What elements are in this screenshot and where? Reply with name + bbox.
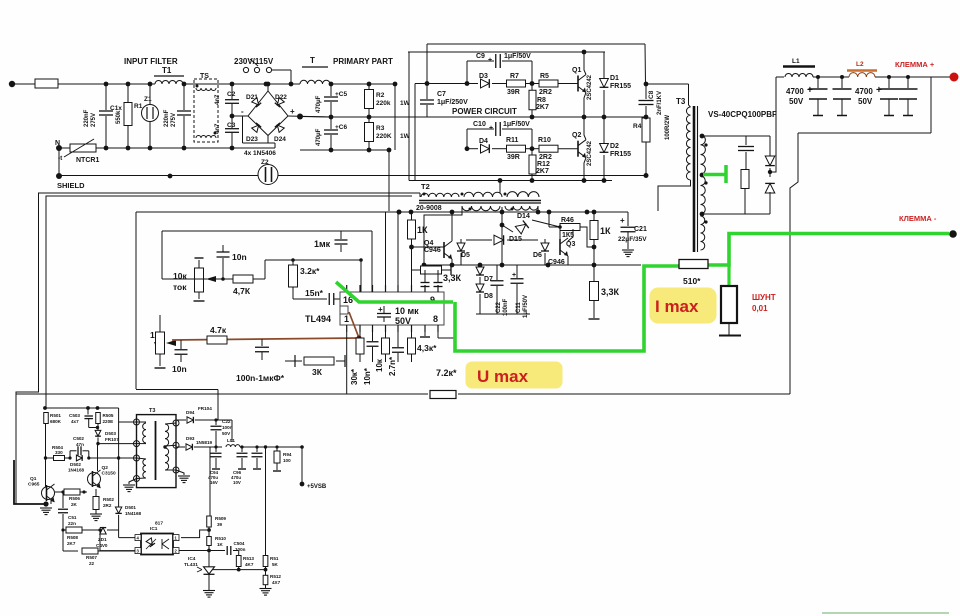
svg-text:100nF: 100nF xyxy=(503,298,509,316)
T3s terminals xyxy=(134,419,140,425)
svg-text:275V: 275V xyxy=(91,113,97,127)
resistor R506 2K xyxy=(55,491,63,493)
wire border bottom xyxy=(16,393,428,395)
wire T3 sec bottom to rectifier xyxy=(702,213,770,215)
svg-text:FR107: FR107 xyxy=(105,437,119,442)
svg-text:2SC4242: 2SC4242 xyxy=(587,74,593,100)
fuse F1 xyxy=(35,79,58,88)
capacitor C51 22n xyxy=(62,492,64,508)
wire Q2 emitter xyxy=(584,158,586,181)
wire rail y231 xyxy=(162,230,372,232)
chip bottom pins xyxy=(346,325,348,332)
capacitor pin7 small xyxy=(424,287,426,292)
resistor R8 2K7 xyxy=(531,84,533,91)
svg-text:50V: 50V xyxy=(858,97,873,106)
svg-text:FR155: FR155 xyxy=(610,151,631,158)
svg-text:C3150: C3150 xyxy=(102,471,116,477)
wire to T2 left xyxy=(388,150,390,211)
svg-text:1μF/250V: 1μF/250V xyxy=(437,99,468,106)
svg-text:50V: 50V xyxy=(222,431,231,436)
transistor Q2 C3150 xyxy=(88,473,101,486)
diode D7 xyxy=(479,265,481,267)
transistor Q1 2SC4242 xyxy=(577,76,579,92)
svg-text:1N4168: 1N4168 xyxy=(125,511,142,516)
svg-text:100R/2W: 100R/2W xyxy=(665,115,671,140)
wire outer border left inner xyxy=(46,196,412,408)
svg-text:470μF: 470μF xyxy=(316,128,322,146)
svg-text:R505: R505 xyxy=(103,413,114,418)
wire plus rail xyxy=(776,76,784,78)
svg-text:C946: C946 xyxy=(424,247,441,254)
wire bridge plus to mid rail xyxy=(288,116,331,117)
svg-text:U max: U max xyxy=(477,367,529,386)
transformer T3 core xyxy=(693,106,696,252)
svg-text:NTCR1: NTCR1 xyxy=(76,157,99,164)
choke TS dashed box xyxy=(194,79,218,142)
svg-text:50V: 50V xyxy=(789,97,804,106)
svg-text:1N4168: 1N4168 xyxy=(68,468,85,473)
wire Q2 collector xyxy=(584,117,586,140)
svg-text:D23: D23 xyxy=(246,136,258,143)
svg-text:R4: R4 xyxy=(633,123,642,130)
transformer T3 primary winding xyxy=(686,107,690,180)
svg-text:C965: C965 xyxy=(28,482,40,488)
svg-text:D93: D93 xyxy=(186,436,195,441)
resistor R508 2K7 xyxy=(63,529,66,531)
svg-text:4,7К: 4,7К xyxy=(233,286,251,296)
shunt resistor 0.01 xyxy=(727,265,730,286)
wire shield rail xyxy=(59,175,258,177)
resistor 3K xyxy=(285,360,295,362)
wire R46 right down xyxy=(580,227,594,247)
svg-text:2K7: 2K7 xyxy=(67,541,76,546)
svg-text:10 мк: 10 мк xyxy=(395,306,419,316)
wire T1 to TS xyxy=(183,83,232,85)
svg-text:C9: C9 xyxy=(476,53,485,60)
svg-text:C504: C504 xyxy=(234,541,245,546)
diode D6 xyxy=(544,239,546,243)
wire Q4 collector xyxy=(451,212,453,241)
ground pin7 xyxy=(424,332,426,336)
diode D94 FR104 xyxy=(187,417,193,423)
T3s core xyxy=(155,421,157,480)
svg-text:39: 39 xyxy=(217,522,223,527)
resistor R513 4K7 xyxy=(238,551,240,556)
wire power second rail xyxy=(408,51,605,53)
resistor 30k pin2 xyxy=(359,332,361,338)
svg-text:510*: 510* xyxy=(683,276,701,286)
diode D503 FR107 xyxy=(96,426,99,429)
resistor R5 2R2 xyxy=(539,80,558,87)
choke TS bottom winding xyxy=(196,136,216,139)
chip top pins xyxy=(346,285,348,292)
wire bottom rail primary xyxy=(300,149,389,151)
wire green highlight feedback path xyxy=(336,282,453,302)
diode D501 1N4148 xyxy=(115,507,121,513)
svg-text:R8: R8 xyxy=(537,97,546,104)
capacitor C3 xyxy=(231,103,233,128)
diode D1 FR155 xyxy=(603,52,605,78)
wire L2 to terminal xyxy=(875,76,950,78)
svg-text:D8: D8 xyxy=(484,293,493,300)
svg-text:ZD1: ZD1 xyxy=(98,537,107,542)
wire wiper xyxy=(162,278,207,280)
resistor 4.3k pin6 xyxy=(411,332,413,338)
svg-text:D502: D502 xyxy=(70,462,81,467)
wire 1K to 3.3K right xyxy=(593,247,595,282)
transistor Q2 2SC4242 xyxy=(577,141,579,157)
svg-text:3,3К: 3,3К xyxy=(601,287,620,297)
svg-text:22μF/35V: 22μF/35V xyxy=(618,236,647,243)
shunt regulator IC4 TL431 xyxy=(204,567,215,574)
resistor 10k pin4 xyxy=(385,332,387,338)
thermistor NTCR1 xyxy=(56,145,62,151)
resistor R507 22 xyxy=(62,530,64,551)
wire brown to pin xyxy=(172,338,359,340)
svg-text:D4: D4 xyxy=(479,138,488,145)
svg-text:D7: D7 xyxy=(484,276,493,283)
svg-text:D501: D501 xyxy=(125,505,136,510)
transistor Q1 C945 xyxy=(42,487,55,500)
svg-text:220nF: 220nF xyxy=(164,109,170,127)
capacitor C96 470u 10V xyxy=(241,447,243,452)
capacitor C4 220nF xyxy=(183,84,185,110)
svg-text:R94: R94 xyxy=(283,452,292,457)
svg-text:16V: 16V xyxy=(210,480,218,485)
resistor 3.3K left xyxy=(411,247,413,270)
svg-text:1К: 1К xyxy=(600,226,611,236)
resistor 4.7k lower xyxy=(207,336,227,344)
diode D8 xyxy=(476,284,484,292)
varistor Z1 xyxy=(149,84,151,104)
svg-text:47n: 47n xyxy=(76,442,84,447)
svg-text:2K7: 2K7 xyxy=(536,168,549,175)
svg-text:Q4: Q4 xyxy=(424,240,433,247)
svg-text:1N5819: 1N5819 xyxy=(196,440,213,445)
wire bottom tie xyxy=(476,313,530,315)
svg-text:L1: L1 xyxy=(792,58,800,65)
svg-text:1μF/50V: 1μF/50V xyxy=(504,53,531,60)
capacitor C503 4n7 xyxy=(86,406,90,410)
wire pin6 drop xyxy=(411,247,413,292)
svg-text:4n7: 4n7 xyxy=(215,123,221,134)
capacitor C9 1uF/50V xyxy=(466,61,468,84)
wire N to shield xyxy=(58,148,60,176)
wire bridge minus xyxy=(243,116,249,143)
resistor 3.3K right xyxy=(590,282,599,301)
capacitor C2 xyxy=(231,84,233,99)
diode D14 xyxy=(502,225,513,232)
svg-text:R3: R3 xyxy=(376,125,385,132)
capacitor C11 1uF/50V xyxy=(516,265,518,278)
diode D4 xyxy=(465,146,470,151)
svg-text:L01: L01 xyxy=(227,438,235,443)
svg-text:Q3: Q3 xyxy=(566,241,575,248)
wire T3 primary bottom xyxy=(658,180,691,211)
svg-text:Q1: Q1 xyxy=(30,476,37,482)
svg-text:Q1: Q1 xyxy=(572,67,581,74)
svg-text:2.7n*: 2.7n* xyxy=(388,356,397,376)
chip pin marker xyxy=(340,306,348,314)
svg-text:+: + xyxy=(807,85,813,96)
resistor R11 39R xyxy=(507,145,526,152)
svg-text:8: 8 xyxy=(433,314,438,324)
wire rectifier output up xyxy=(770,77,776,172)
svg-text:C2: C2 xyxy=(227,91,236,98)
svg-text:D6: D6 xyxy=(533,252,542,259)
svg-text:+C5: +C5 xyxy=(335,91,347,98)
wire fuse to filter xyxy=(58,83,155,85)
svg-text:D1: D1 xyxy=(610,75,619,82)
svg-text:1К: 1К xyxy=(417,225,428,235)
svg-text:R508: R508 xyxy=(67,535,78,540)
capacitor C5 470uF xyxy=(330,84,332,96)
wire D501 column xyxy=(118,422,120,507)
svg-text:3.2к*: 3.2к* xyxy=(300,266,320,276)
svg-text:Q2: Q2 xyxy=(572,132,581,139)
node shield xyxy=(56,173,62,179)
svg-text:C946: C946 xyxy=(548,259,565,266)
capacitor C6 470uF xyxy=(330,117,332,129)
svg-text:D21: D21 xyxy=(246,94,258,101)
diode D502 1N4148 xyxy=(68,456,71,459)
diode D2 FR155 xyxy=(603,117,605,143)
svg-text:D5: D5 xyxy=(461,252,470,259)
T3s primary winding xyxy=(143,423,146,443)
ground T3s xyxy=(129,479,137,485)
svg-text:4X7: 4X7 xyxy=(272,580,281,585)
svg-text:R507: R507 xyxy=(86,555,97,560)
svg-text:TL494: TL494 xyxy=(305,314,331,324)
capacitor 15n xyxy=(293,298,327,300)
resistor R501 680K xyxy=(43,406,47,410)
diode D5 xyxy=(460,239,462,243)
svg-text:C22: C22 xyxy=(496,301,502,313)
svg-text:T1: T1 xyxy=(162,66,172,75)
svg-text:2K: 2K xyxy=(71,502,78,507)
capacitor 100n-1mk xyxy=(261,339,263,346)
wire Q1 collector xyxy=(584,52,586,75)
capacitor 10n pin3 xyxy=(372,332,374,341)
svg-text:+: + xyxy=(489,125,493,132)
wire D503 to T3 xyxy=(96,442,99,445)
svg-text:N: N xyxy=(55,140,60,147)
capacitor C10 1uF/50V xyxy=(466,129,468,149)
svg-text:T2: T2 xyxy=(421,182,430,191)
capacitor C7 1uF/250V xyxy=(426,44,428,99)
svg-text:R509: R509 xyxy=(215,516,226,521)
wire 5VSB xyxy=(301,447,303,484)
ground T3s right xyxy=(176,470,184,475)
resistor 4.7K xyxy=(221,277,225,281)
svg-text:50V: 50V xyxy=(395,316,411,326)
svg-text:D24: D24 xyxy=(274,136,286,143)
wire to power rails xyxy=(394,84,396,150)
svg-text:R2: R2 xyxy=(376,92,385,99)
svg-text:7.2к*: 7.2к* xyxy=(436,368,457,378)
resistor R4 100R xyxy=(642,118,650,142)
svg-text:C7: C7 xyxy=(437,91,446,98)
svg-text:275V: 275V xyxy=(171,113,177,127)
svg-text:1: 1 xyxy=(344,314,349,324)
svg-text:C502: C502 xyxy=(73,436,84,441)
svg-text:39R: 39R xyxy=(507,89,520,96)
wire IC1 pin1 to divider xyxy=(181,530,207,538)
resistor R3 220K xyxy=(368,117,370,123)
capacitor pin8 small xyxy=(437,287,439,292)
wire power top rail xyxy=(427,43,645,45)
snubber capacitor xyxy=(745,136,747,145)
svg-text:R12: R12 xyxy=(537,161,550,168)
choke TS top winding xyxy=(196,88,216,91)
svg-text:R501: R501 xyxy=(50,413,61,418)
capacitor C22 100nF xyxy=(496,265,498,280)
wire C2C3 to bridge xyxy=(230,114,235,119)
svg-text:3К: 3К xyxy=(312,367,323,377)
transformer T3s box xyxy=(137,415,177,488)
resistor R512 4K2 xyxy=(265,567,267,576)
wire pin5 drop xyxy=(397,212,399,292)
diode D93 1N5819 xyxy=(176,446,185,448)
svg-text:330: 330 xyxy=(55,450,63,455)
svg-text:4,3к*: 4,3к* xyxy=(417,343,437,353)
resistor R1 550k xyxy=(127,84,129,103)
svg-text:C21: C21 xyxy=(634,226,647,233)
zener ZD1 xyxy=(100,528,106,534)
svg-text:1μF/50V: 1μF/50V xyxy=(503,121,530,128)
wire L1 to L2 xyxy=(813,76,849,78)
transistor Q3 C946 xyxy=(559,227,561,239)
wire R509 column xyxy=(209,447,211,516)
ground C21 xyxy=(622,249,634,251)
svg-text:C503: C503 xyxy=(69,413,80,418)
ground Q1 xyxy=(40,507,52,509)
capacitor C1 220nF xyxy=(105,84,107,110)
svg-text:D503: D503 xyxy=(105,431,116,436)
wire power left border xyxy=(408,52,410,181)
svg-text:ШУНТ: ШУНТ xyxy=(752,293,776,302)
svg-text:T3: T3 xyxy=(676,97,686,106)
svg-text:3,3К: 3,3К xyxy=(443,273,462,283)
svg-text:+5VSB: +5VSB xyxy=(307,484,327,490)
capacitor C8 2nF/1KV xyxy=(644,44,647,84)
svg-text:FR155: FR155 xyxy=(610,83,631,90)
svg-text:5K: 5K xyxy=(272,562,279,567)
svg-text:Z2: Z2 xyxy=(261,159,269,166)
resistor R46 1K5 xyxy=(560,224,580,231)
wire Q4 base xyxy=(412,246,445,248)
svg-text:220E: 220E xyxy=(103,419,114,424)
svg-text:КЛЕММА -: КЛЕММА - xyxy=(899,214,937,223)
wire C8 to T3 primary xyxy=(646,83,689,85)
svg-text:1μF/50V: 1μF/50V xyxy=(523,295,529,318)
svg-text:D94: D94 xyxy=(186,410,195,415)
wire ref rail xyxy=(211,569,266,571)
capacitor 10n lower xyxy=(180,340,182,349)
node mid rail xyxy=(329,115,334,120)
svg-text:+: + xyxy=(378,305,383,314)
resistor R502 2R2 xyxy=(95,489,97,496)
capacitor C504 100n xyxy=(209,550,225,552)
svg-text:220K: 220K xyxy=(376,133,392,140)
svg-text:R1: R1 xyxy=(134,103,143,110)
ground IC4 xyxy=(208,574,210,590)
svg-text:R513: R513 xyxy=(243,556,254,561)
svg-text:+: + xyxy=(512,272,516,279)
transistor Q4 C946 xyxy=(443,242,445,258)
wire inner box left xyxy=(135,212,137,389)
svg-text:C4V0: C4V0 xyxy=(96,543,108,548)
gas arrester Z2 xyxy=(258,165,278,185)
wire green to shunt xyxy=(708,234,949,266)
svg-text:4.7к: 4.7к xyxy=(210,325,227,335)
svg-text:FR104: FR104 xyxy=(198,406,212,411)
svg-text:100: 100 xyxy=(283,458,291,463)
svg-text:C11: C11 xyxy=(516,302,522,313)
svg-text:R46: R46 xyxy=(561,217,574,224)
svg-text:22: 22 xyxy=(89,561,95,566)
svg-text:4K7: 4K7 xyxy=(245,562,254,567)
wire bridge bottom xyxy=(243,136,269,144)
wire Q1 emitter xyxy=(50,499,52,504)
svg-text:L2: L2 xyxy=(856,61,864,68)
resistor R2 220k xyxy=(368,84,370,90)
svg-text:T3: T3 xyxy=(149,408,155,414)
svg-text:D22: D22 xyxy=(275,94,287,101)
wire bottom rail xyxy=(106,147,275,149)
svg-text:4x 1N5406: 4x 1N5406 xyxy=(244,150,276,157)
wire left vertical xyxy=(161,231,163,279)
svg-text:Z1: Z1 xyxy=(144,96,152,103)
svg-text:4700: 4700 xyxy=(855,87,873,96)
svg-text:2SC4242: 2SC4242 xyxy=(587,140,593,166)
resistor R511 5K xyxy=(265,447,267,556)
svg-text:+: + xyxy=(488,57,492,64)
svg-text:220k: 220k xyxy=(376,100,391,107)
wire pin4 drop xyxy=(385,212,387,292)
svg-text:R7: R7 xyxy=(510,73,519,80)
wire Q2 collector xyxy=(97,444,99,471)
svg-text:2R2: 2R2 xyxy=(539,89,552,96)
svg-text:VS-40CPQ100PBF: VS-40CPQ100PBF xyxy=(708,110,777,119)
diode D3 xyxy=(465,81,470,86)
svg-text:IC1: IC1 xyxy=(150,526,158,532)
svg-text:D15: D15 xyxy=(509,236,522,243)
svg-text:680K: 680K xyxy=(50,419,62,424)
svg-text:10n: 10n xyxy=(232,252,247,262)
green mark center tap xyxy=(703,173,726,177)
svg-text:PRIMARY PART: PRIMARY PART xyxy=(333,57,393,66)
wire IC1 pin3 xyxy=(100,550,135,552)
svg-text:R510: R510 xyxy=(215,536,226,541)
wire mid rail xyxy=(300,116,331,119)
diode D15 xyxy=(466,239,492,241)
svg-text:C10: C10 xyxy=(473,121,486,128)
svg-text:ток: ток xyxy=(173,282,187,292)
wire power bottom rail xyxy=(409,180,612,182)
svg-text:2K7: 2K7 xyxy=(536,104,549,111)
resistor R12 2K7 xyxy=(531,149,533,155)
svg-text:R10: R10 xyxy=(538,137,551,144)
terminal KLEMMA plus xyxy=(950,73,959,82)
svg-text:10V: 10V xyxy=(233,480,241,485)
transformer T primary winding xyxy=(300,80,330,84)
diode rectifier top xyxy=(769,136,771,157)
wire thick input xyxy=(14,460,46,504)
svg-text:T: T xyxy=(310,56,315,65)
green line bottom right xyxy=(822,612,949,614)
svg-text:IC4: IC4 xyxy=(188,556,196,562)
